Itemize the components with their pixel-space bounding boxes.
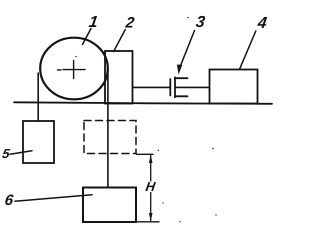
dimension arrowhead bottom <box>149 213 153 221</box>
shaft wire left segment <box>133 86 170 88</box>
bracket box 2 <box>105 51 133 104</box>
clutch 3 left bar <box>169 79 171 96</box>
clutch 3 E-shape <box>175 77 188 97</box>
dimension arrowhead top <box>149 155 153 163</box>
speck dots <box>75 17 217 223</box>
ground line <box>14 102 272 104</box>
load box 6 <box>83 188 136 223</box>
left rope wire <box>37 73 39 121</box>
weight box 5 <box>23 121 54 163</box>
arrowhead of leader 3 <box>177 65 182 75</box>
leader line to label 2 <box>114 30 126 52</box>
center cross of pulley <box>58 61 86 79</box>
motor box 4 <box>210 70 258 104</box>
white gap for H letter on dimension line <box>145 182 156 193</box>
pulley drum 1 <box>40 38 108 100</box>
leader line to label 5 <box>10 151 32 155</box>
shaft wire right segment <box>175 86 209 88</box>
dashed phantom box (raised position of load 6) <box>84 121 136 154</box>
leader arrow to label 3 <box>180 31 195 68</box>
right rope wire <box>107 69 109 188</box>
dimension extension line top <box>137 153 154 155</box>
leader line to label 1 <box>83 29 92 45</box>
dimension line H <box>150 155 152 220</box>
leader line to label 6 <box>15 195 92 202</box>
dimension extension line bottom <box>136 221 159 223</box>
leader line to label 4 <box>240 31 256 69</box>
